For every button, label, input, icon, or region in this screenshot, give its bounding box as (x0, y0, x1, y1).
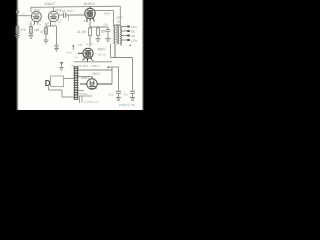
wire rail drop to output transformer (119, 6, 121, 25)
power transformer T2 windings (75, 66, 78, 99)
svg-text:16Ω: 16Ω (131, 25, 137, 29)
pin specks V2 (84, 21, 95, 22)
ground for R3 (44, 40, 49, 43)
svg-text:47k: 47k (21, 28, 27, 32)
svg-text:4 5: 4 5 (74, 56, 78, 60)
svg-text:1u: 1u (22, 11, 25, 15)
pin specks V3 (82, 60, 94, 62)
wire cathode bus (74, 61, 112, 63)
safety ground symbol (59, 64, 63, 71)
transformer heater taps (78, 91, 93, 104)
wire rectifier to filter (107, 67, 119, 91)
svg-text:1k8: 1k8 (34, 28, 39, 32)
resistor R5 560 with ground (96, 27, 101, 42)
wires from box to transformer (49, 79, 75, 98)
svg-text:100n: 100n (66, 51, 73, 55)
triode V1a (12AU7 section) (31, 12, 41, 25)
svg-text:630V: 630V (67, 9, 74, 13)
svg-text:250V: 250V (34, 8, 41, 12)
speaker tap wires and terminals (121, 27, 127, 41)
grid feed stub (72, 47, 74, 50)
svg-text:20u: 20u (109, 93, 114, 97)
wire V2 plate to OPT primary (95, 11, 116, 26)
output transformer T1 core (117, 25, 118, 44)
capacitor C5 filter with ground (130, 91, 135, 100)
svg-text:6.3VAC 2A: 6.3VAC 2A (85, 100, 99, 104)
svg-text:COM: COM (131, 39, 138, 43)
svg-text:D: D (45, 79, 51, 88)
svg-text:1.5V: 1.5V (27, 21, 33, 25)
wire input jack stem (17, 13, 19, 27)
triode V1b (12AU7 section) (48, 11, 58, 26)
triode V3 driver lower (78, 48, 93, 62)
svg-text:5V: 5V (90, 83, 94, 87)
output transformer T1 secondary winding (120, 26, 121, 46)
left black border bar (0, 0, 16, 110)
terminal blocks (127, 26, 130, 42)
resistor R3 cathode V1b with value (45, 23, 57, 40)
paper background (0, 0, 160, 110)
pentode V2 output tube (85, 6, 95, 22)
capacitor C2 cathode bypass (54, 26, 59, 51)
svg-text:5AR4: 5AR4 (81, 76, 89, 80)
svg-text:0.68: 0.68 (60, 9, 66, 13)
svg-text:450V: 450V (98, 48, 107, 52)
resistor R4 cathode 1k 1W (89, 28, 92, 47)
fuse/switch box (51, 76, 64, 87)
svg-text:6.3VAC: 6.3VAC (78, 92, 88, 96)
wire coupling cap to V2 grid (66, 14, 86, 16)
svg-text:6L6GC: 6L6GC (84, 2, 96, 6)
svg-text:47u: 47u (123, 93, 128, 97)
wire V2 cathode drop (90, 20, 108, 28)
wire V1b plate to coupling cap (59, 14, 63, 16)
ground for R1 (15, 36, 20, 39)
svg-text:1k 1W: 1k 1W (77, 30, 86, 34)
wire OPT secondary return (111, 44, 133, 91)
labels speaker taps (131, 25, 138, 43)
ground for R2 (29, 36, 34, 39)
svg-text:470: 470 (40, 30, 46, 34)
right black border bar (144, 0, 160, 110)
grid stopper dot (72, 45, 74, 47)
capacitor C1 coupling with value (64, 12, 66, 18)
svg-text:25u: 25u (103, 23, 108, 27)
rectifier tube V4 (80, 77, 112, 90)
svg-text:350V: 350V (92, 72, 101, 76)
svg-text:285V: 285V (104, 11, 112, 15)
pin number specks V1a (31, 21, 42, 26)
output transformer T1 primary winding (114, 25, 120, 58)
svg-text:5k: 5k (117, 20, 121, 24)
resistor R2 cathode V1a with value (30, 23, 33, 36)
stub after coupling cap (68, 15, 70, 19)
capacitor C4 filter with ground (116, 91, 121, 100)
svg-text:12AU7: 12AU7 (44, 2, 55, 6)
power supply top wire (78, 70, 113, 79)
wire rail left corner drop (30, 7, 32, 12)
wire tube V1b plate riser (53, 7, 55, 11)
small component 5V tap (89, 87, 97, 89)
wire B+ top rail (31, 6, 120, 7)
resistor R1 grid leak with value (16, 27, 19, 36)
svg-text:edtr4.us: edtr4.us (119, 102, 135, 107)
capacitor C3 cathode bypass with ground (106, 27, 111, 42)
svg-text:560: 560 (101, 30, 107, 34)
speck terminal (130, 45, 132, 46)
pin number specks V1b (48, 22, 60, 26)
svg-text:47k: 47k (78, 43, 83, 47)
svg-text:0.47u: 0.47u (86, 42, 94, 46)
wire input to grid of V1a (18, 15, 31, 17)
svg-text:30mA: 30mA (98, 53, 106, 57)
input jack J1 (16, 11, 19, 14)
